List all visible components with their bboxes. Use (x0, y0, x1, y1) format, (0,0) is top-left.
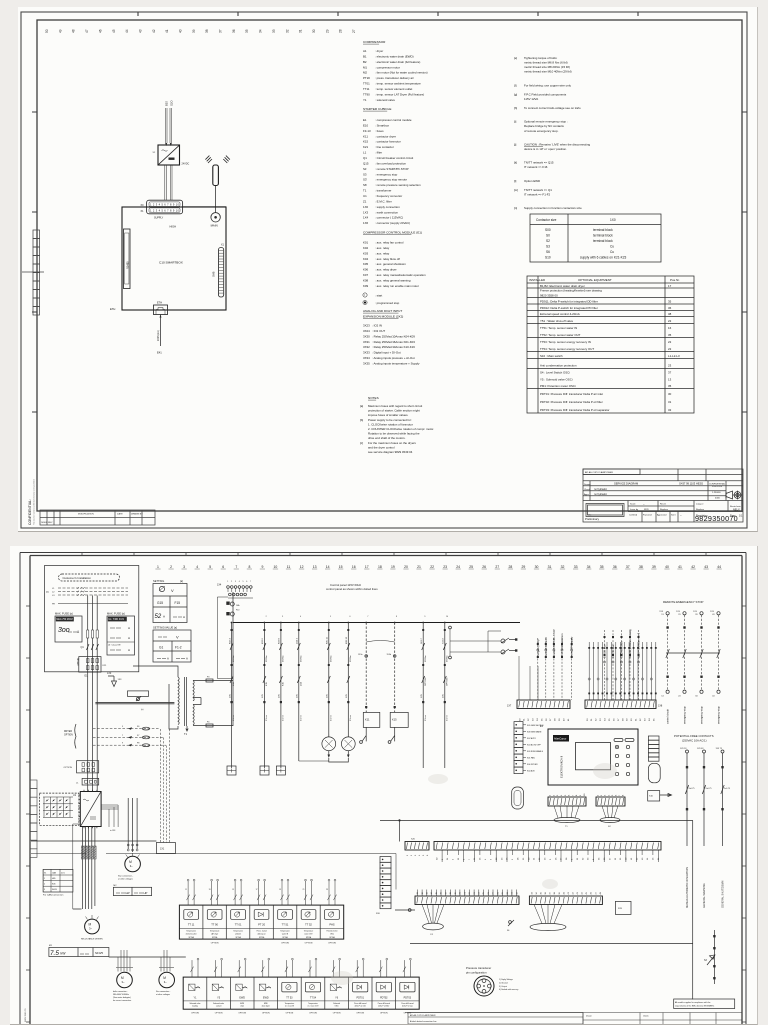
svg-text:ETH: ETH (157, 302, 162, 305)
svg-text:115V 12VA: 115V 12VA (524, 97, 538, 101)
svg-text:E41: E41 (157, 351, 162, 355)
svg-text:terminal block: terminal block (593, 228, 613, 232)
svg-text:35: 35 (600, 565, 604, 569)
svg-text:Res.fl.: Res.fl. (660, 503, 667, 505)
svg-text:For the maximum fuses on the d: For the maximum fuses on the dryers (368, 441, 416, 445)
svg-text:29: 29 (522, 565, 526, 569)
svg-text:5: 5 (550, 858, 552, 860)
svg-text:supply with 6 cables on K21-K2: supply with 6 cables on K21-K23 (580, 256, 626, 260)
customer installation section box (45, 566, 139, 672)
svg-text:control panel as shown within: control panel as shown within dotted lin… (326, 587, 378, 591)
svg-text:9: 9 (122, 743, 124, 745)
svg-text:DRAWN BY: DRAWN BY (131, 513, 143, 516)
notes e-n (514, 56, 518, 210)
terminal strip X20 small (405, 842, 429, 851)
svg-text:MAX. FUSE [a]: MAX. FUSE [a] (107, 612, 125, 616)
svg-text:SUPPLY: SUPPLY (154, 217, 164, 220)
svg-text:S6: S6 (507, 930, 509, 932)
svg-text:--: -- (680, 514, 682, 517)
svg-text:S6 17: S6 17 (421, 638, 423, 645)
svg-text:52: 52 (596, 718, 598, 721)
svg-text:38: 38 (554, 891, 556, 894)
svg-text:en. recov OUT: en. recov OUT (308, 1005, 319, 1008)
svg-text:K21: K21 (363, 145, 369, 149)
svg-text:STARTER CUBICLE: STARTER CUBICLE (363, 107, 391, 111)
title block page2 (405, 1013, 742, 1025)
wire supply B2S (165, 108, 167, 143)
svg-text:28: 28 (566, 857, 568, 860)
cable loop T3 (530, 923, 566, 930)
svg-text:F7: F7 (137, 735, 140, 737)
converter detail box (40, 793, 79, 825)
option labels row1 (211, 943, 337, 945)
sensor TT 51 (273, 905, 297, 939)
svg-text:35: 35 (668, 300, 672, 304)
svg-text:50: 50 (587, 718, 589, 721)
svg-text:40: 40 (564, 718, 566, 721)
svg-text:3X35: 3X35 (363, 362, 370, 366)
D-sub connector X08 (512, 787, 524, 809)
svg-text:EXPANSION MODULE (3X2): EXPANSION MODULE (3X2) (363, 315, 403, 319)
wires below strip 1X8 (442, 850, 658, 862)
svg-text:[j]: [j] (514, 142, 517, 146)
svg-text:: compressor motor: : compressor motor (375, 65, 400, 69)
svg-text:3~: 3~ (122, 980, 125, 984)
svg-text:52: 52 (155, 614, 162, 620)
svg-text:48: 48 (600, 891, 602, 894)
svg-text:For CAN-Connection: For CAN-Connection (43, 894, 64, 897)
svg-text:PDT03: PDT03 (404, 997, 412, 1000)
svg-text:IT network => F16: IT network => F16 (524, 165, 548, 169)
svg-text:4000: 4000 (715, 498, 721, 500)
wire ETH (160, 315, 162, 347)
svg-text:A: A (186, 657, 188, 661)
svg-text:term: term (61, 872, 65, 875)
sensor TT 52 (297, 905, 320, 939)
svg-text:PD912: Delta P-switch for inte: PD912: Delta P-switch for integrated PD … (540, 306, 598, 310)
svg-text:36: 36 (668, 306, 672, 310)
wires above TT 11 (187, 881, 196, 905)
svg-text:3~: 3~ (164, 980, 167, 984)
svg-text:10: 10 (446, 616, 448, 618)
svg-text:Approved: Approved (657, 514, 667, 517)
svg-text:PDT02: Pressure Diff. transduc: PDT02: Pressure Diff. transducer Delta P… (540, 400, 603, 404)
svg-text:(b): (b) (46, 592, 49, 594)
svg-text:Factored: Factored (643, 514, 652, 517)
svg-text:: supply connection: : supply connection (375, 205, 400, 209)
svg-text:SP13A: SP13A (259, 936, 265, 939)
svg-text:SETTING: SETTING (153, 579, 164, 583)
svg-text:protection of starter. Cable s: protection of starter. Cable section mig… (368, 409, 420, 413)
emergency stop S3 (713, 930, 715, 984)
svg-text:MANUAL/AUTOMATIC OPERATION: MANUAL/AUTOMATIC OPERATION (686, 867, 689, 908)
svg-text:SP13A: SP13A (235, 936, 241, 939)
svg-text:Pressure transducer: Pressure transducer (466, 966, 491, 970)
svg-text:10A: 10A (236, 604, 240, 607)
svg-text:B1,B2: Electronic water drain: B1,B2: Electronic water drain dryer (540, 284, 585, 288)
svg-text:K08 GEN WARN: K08 GEN WARN (527, 731, 542, 734)
dryer fuses (142, 727, 149, 730)
svg-text:S3: S3 (704, 960, 708, 962)
svg-text:250Vac: 250Vac (330, 655, 332, 662)
svg-text:at other voltages: at other voltages (156, 993, 170, 996)
svg-text:X1: X1 (44, 873, 46, 875)
heavy 115V feeder (95, 703, 174, 704)
svg-text:31: 31 (458, 857, 460, 860)
svg-text:32: 32 (561, 565, 565, 569)
svg-text:30: 30 (668, 392, 672, 396)
svg-text:1X3: 1X3 (363, 210, 369, 214)
svg-text:(250VAC 10A AC/1): (250VAC 10A AC/1) (682, 738, 707, 742)
D-sub connector right (649, 763, 661, 783)
svg-text:MODIFICATION: MODIFICATION (78, 513, 94, 516)
wires above TT 01 (234, 881, 243, 905)
svg-text:7.5: 7.5 (50, 950, 59, 957)
svg-text:0.5mm: 0.5mm (350, 715, 352, 721)
svg-text:element outlet: element outlet (186, 933, 197, 936)
svg-text:Solenoid: Solenoid (333, 1003, 340, 1005)
svg-text:57: 57 (618, 718, 620, 721)
svg-text:K11: K11 (365, 718, 370, 722)
svg-text:44: 44 (125, 29, 129, 33)
arrowheads into power supply (165, 143, 172, 146)
svg-text:K05 GEN SHUTDN: K05 GEN SHUTDN (527, 725, 544, 727)
svg-text:: compressor control module: : compressor control module (375, 118, 412, 122)
contactor K11 option box (77, 761, 99, 773)
svg-text:X2: X2 (153, 152, 156, 154)
svg-text:T1: T1 (363, 189, 367, 193)
svg-text:M1: M1 (49, 945, 53, 947)
svg-text:Pos.Nr.: Pos.Nr. (670, 278, 680, 282)
svg-text:TT 11: TT 11 (188, 923, 195, 927)
wire frame tap (22, 271, 44, 273)
main control bus 115V (233, 622, 520, 624)
svg-text:K06: K06 (363, 268, 369, 272)
sensor row 2 container (183, 977, 419, 1009)
svg-text:31: 31 (299, 29, 303, 33)
svg-text:[m]: [m] (514, 188, 518, 192)
svg-text:metric thread size M8 20Nm (: metric thread size M8 20Nm (15 lbf) (524, 65, 570, 69)
return wire to T1 (217, 597, 233, 679)
actuator EWD3 (254, 977, 278, 1009)
svg-text:3) Output: 3) Output (499, 985, 507, 988)
svg-text:Q15: Q15 (300, 681, 302, 686)
svg-text:0.5mm: 0.5mm (283, 715, 285, 721)
svg-text:14: 14 (326, 565, 330, 569)
transformer T1 secondary 2 (193, 705, 194, 725)
svg-text:EWD: EWD (239, 997, 245, 1000)
svg-text:[n]: [n] (514, 206, 517, 210)
svg-text:K09 RUN ENABLE: K09 RUN ENABLE (527, 750, 544, 753)
actuator PDT028 (372, 977, 396, 1009)
actuator PDT039 (396, 977, 420, 1009)
svg-text:15: 15 (339, 565, 343, 569)
svg-text:F10: F10 (236, 610, 239, 612)
svg-text:Potentio meter: Potentio meter (327, 930, 338, 933)
svg-text:35: 35 (245, 29, 249, 33)
lamp H1 (322, 737, 336, 751)
motor M4 (159, 972, 175, 988)
emergency stop chain 1 (666, 612, 669, 615)
svg-text:0.5mm: 0.5mm (425, 715, 427, 721)
svg-text:PD911: Delta P-switch for inte: PD911: Delta P-switch for integrated DD … (540, 300, 598, 304)
svg-text:45: 45 (586, 891, 588, 894)
svg-text:TT90: TT90 (363, 92, 370, 96)
svg-text:: frequency convertor: : frequency convertor (375, 194, 402, 198)
wires above PDT017 (356, 960, 364, 977)
svg-text:PDT01: Pressure Diff. transduc: PDT01: Pressure Diff. transducer Delta P… (540, 392, 603, 396)
svg-text:Customer’s Installation: Customer’s Installation (63, 576, 92, 580)
svg-text:: Relay 250Vac/10Amax K04-K09: : Relay 250Vac/10Amax K04-K09 (372, 334, 415, 338)
svg-text:43: 43 (577, 891, 579, 894)
svg-text:Contactor size: Contactor size (536, 218, 557, 222)
svg-text:1: 1 (598, 794, 600, 796)
drop wire tags (229, 636, 448, 721)
svg-text:: electronic water drain (EWD): : electronic water drain (EWD) (375, 54, 414, 58)
svg-text:K05 11: K05 11 (327, 636, 329, 644)
svg-text:1X9: 1X9 (659, 611, 663, 613)
transformer T1 primary winding (178, 677, 179, 725)
supply wires L1 L2 L3 (58, 588, 128, 595)
svg-text:S1 19: S1 19 (443, 638, 445, 645)
svg-text:K08: K08 (363, 279, 369, 283)
motor M3 (117, 972, 133, 988)
svg-text:ATLAS COPCO AIRPOWER: ATLAS COPCO AIRPOWER (585, 471, 613, 474)
svg-text:delta P air inlet: delta P air inlet (355, 1005, 367, 1008)
drop labels (230, 677, 448, 703)
svg-text:1X5: 1X5 (346, 693, 348, 698)
wires into M2 (128, 798, 137, 852)
wire joins lamps (299, 760, 329, 762)
svg-text:4) Sealed with mercury: 4) Sealed with mercury (499, 988, 518, 991)
svg-text:Z1: Z1 (363, 199, 367, 203)
svg-text:Solenoid valve: Solenoid valve (190, 1003, 201, 1005)
svg-text:K08 13: K08 13 (346, 636, 348, 644)
svg-text:Scale: Scale (630, 503, 636, 505)
option labels row2 (191, 1012, 412, 1014)
svg-text:2) Ground: 2) Ground (499, 981, 508, 984)
svg-text:S6': S6' (363, 183, 368, 187)
svg-text:CONFIDENTIAL:: CONFIDENTIAL: (28, 499, 32, 525)
svg-text:A : Class KE: A : Class KE (108, 644, 121, 647)
svg-text:U1: U1 (73, 794, 77, 797)
svg-text:10: 10 (584, 793, 586, 796)
inductor L1 (82, 778, 99, 785)
terminal strip 3X1 A (415, 896, 519, 905)
svg-text:: remote pressure sensing sele: : remote pressure sensing selection (375, 183, 421, 187)
svg-text:3X31: 3X31 (363, 340, 370, 344)
svg-text:TT52: Temp. sensor water OUT: TT52: Temp. sensor water OUT (540, 333, 581, 337)
svg-text:A: A (128, 626, 130, 630)
svg-text:25: 25 (469, 565, 473, 569)
svg-text:: Relay 250Vac/10Amax K10-K16: : Relay 250Vac/10Amax K10-K16 (372, 345, 415, 349)
svg-text:24: 24 (456, 565, 460, 569)
svg-text:OPTION: OPTION (446, 677, 448, 686)
cable loop F1 (423, 923, 444, 930)
svg-text:7: 7 (572, 794, 574, 796)
svg-text:1X9 53: 1X9 53 (680, 748, 687, 750)
svg-text:8: 8 (576, 794, 578, 796)
svg-text:requirements of the EMC direct: requirements of the EMC directive 89/336… (675, 1004, 715, 1007)
frame ticks (26, 553, 746, 1023)
svg-text:26: 26 (555, 857, 557, 860)
svg-text:SP13A: SP13A (212, 936, 218, 939)
svg-text:30: 30 (535, 565, 539, 569)
svg-text:Temperature: Temperature (280, 930, 290, 933)
svg-text:7: 7 (469, 858, 471, 860)
svg-text:4: 4 (419, 854, 421, 856)
actuator Y51 (207, 977, 231, 1009)
phase wires to Q1 (88, 596, 98, 792)
svg-text:28: 28 (339, 29, 343, 33)
actuator Y10 (183, 984, 207, 1008)
svg-text:--: -- (643, 503, 645, 505)
atlas copco logo (553, 735, 569, 742)
svg-text:1X5: 1X5 (443, 693, 445, 698)
svg-text:see service diagram 9829 4549: see service diagram 9829 4549 04 (368, 450, 413, 454)
node on bus (398, 819, 400, 821)
sensor TT 01 (226, 905, 250, 939)
wire strip2 left (395, 909, 415, 911)
antenna (213, 165, 219, 186)
svg-text:2: 2 (411, 854, 413, 856)
svg-text:Temperature: Temperature (285, 1002, 295, 1005)
svg-text:34: 34 (536, 891, 538, 894)
svg-text:Press diff transd: Press diff transd (378, 1002, 390, 1005)
svg-text:SF4/5: SF4/5 (95, 951, 103, 955)
mid squares on drops (231, 629, 446, 666)
svg-text:33: 33 (695, 614, 698, 616)
svg-text:3X24: 3X24 (363, 329, 370, 333)
actuator EWD2 (230, 977, 254, 1009)
svg-text:28: 28 (509, 565, 513, 569)
svg-text:250Vac: 250Vac (283, 655, 285, 662)
svg-text:3X23: 3X23 (363, 324, 370, 328)
svg-text:M: M (163, 976, 166, 980)
svg-text:2. COUNTER CLOCKwise rotation: 2. COUNTER CLOCKwise rotation of compr. … (368, 427, 434, 431)
svg-text:37: 37 (668, 371, 672, 375)
svg-text:1X5: 1X5 (421, 693, 423, 698)
svg-text:1X5: 1X5 (297, 693, 299, 698)
svg-text:SP13A: SP13A (282, 936, 288, 939)
svg-text:7: 7 (122, 735, 124, 737)
svg-text:CAUTION : Remains ‘LIVE’ when: CAUTION : Remains ‘LIVE’ when the discon… (524, 142, 590, 146)
svg-text:F1-2: F1-2 (175, 646, 182, 650)
svg-text:[i]: [i] (514, 120, 516, 124)
svg-text:31: 31 (524, 718, 526, 721)
revision table (40, 510, 155, 525)
svg-text:0.5mm: 0.5mm (330, 715, 332, 721)
svg-text:Q1: Q1 (363, 156, 367, 160)
terminal strip 1X7 group B (585, 700, 656, 709)
svg-text:OPTION: OPTION (425, 677, 427, 686)
wires T1 primary feed (133, 666, 178, 729)
svg-text:3X9: 3X9 (618, 908, 623, 910)
svg-text:no hydraulic: no hydraulic (594, 488, 608, 491)
PE wire (58, 603, 128, 605)
svg-text:1: 1 (227, 581, 228, 583)
svg-text:44: 44 (712, 696, 715, 698)
C10 SMARTBOX E10 (122, 207, 226, 310)
svg-text:250Vac: 250Vac (266, 655, 268, 662)
svg-text:1. CLOCKwise rotation of fanmo: 1. CLOCKwise rotation of fanmotor (368, 422, 413, 426)
svg-text:45: 45 (653, 857, 655, 860)
svg-text:kW: kW (126, 891, 130, 895)
svg-text:B2S: B2S (165, 101, 169, 106)
svg-text:[a]: [a] (360, 404, 363, 408)
svg-text:3: 3 (183, 565, 185, 569)
svg-text:18: 18 (378, 565, 382, 569)
svg-text:S6: S6 (546, 250, 550, 254)
svg-text:11: 11 (615, 857, 617, 860)
svg-text:TT51: Temp. sensor water IN: TT51: Temp. sensor water IN (540, 326, 577, 330)
terminal strip 1X8 long (434, 842, 661, 851)
svg-text:TT 53: TT 53 (286, 997, 293, 1000)
svg-text:9: 9 (424, 616, 425, 618)
svg-text:EWD: EWD (263, 997, 269, 1000)
svg-text:OPTION: OPTION (191, 1012, 199, 1014)
svg-text:K06 DRYER: K06 DRYER (527, 764, 538, 766)
svg-text:OPTION: OPTION (286, 1012, 294, 1014)
svg-text:I: I (364, 293, 365, 297)
svg-text:5: 5 (423, 854, 425, 856)
svg-text:SETTING/VALUE [a]: SETTING/VALUE [a] (153, 626, 177, 630)
feeder fuses F10 (230, 602, 234, 606)
svg-text:A1: A1 (363, 49, 367, 53)
svg-text:2: 2 (44, 884, 45, 886)
svg-text:POTENTIAL FREE CONTACTS: POTENTIAL FREE CONTACTS (674, 734, 714, 738)
svg-text:OPTION: OPTION (64, 767, 73, 769)
svg-text:T1: T1 (184, 732, 188, 736)
svg-text:ELEKTRONIKON Ⅱ: ELEKTRONIKON Ⅱ (560, 755, 564, 778)
svg-text:16: 16 (352, 565, 356, 569)
svg-text:3X30: 3X30 (363, 334, 370, 338)
svg-text:impose fuses of smaller values: impose fuses of smaller values. (368, 413, 409, 417)
cable shield markers (81, 846, 96, 859)
svg-text:SERVICE DIAGRAM: SERVICE DIAGRAM (614, 482, 638, 486)
svg-text:22: 22 (668, 340, 672, 344)
wire antenna to MAIN (215, 186, 217, 213)
dryer option wires (93, 729, 166, 746)
actuator Y66 (325, 977, 349, 1009)
svg-text:: Analog inputs pressure + AI-: : Analog inputs pressure + AI-Out (372, 356, 415, 360)
svg-text:5: 5 (243, 581, 244, 583)
svg-text:AtlasCopco: AtlasCopco (554, 738, 567, 741)
svg-text:34: 34 (447, 857, 449, 860)
compliance note box (674, 999, 735, 1009)
svg-text:1X3a: 1X3a (358, 654, 363, 656)
svg-text:2: 2 (553, 794, 555, 796)
svg-text:: dryer: : dryer (375, 49, 383, 53)
svg-text:Preliminary: Preliminary (585, 517, 600, 521)
wires above EWD3 (261, 960, 269, 977)
svg-text:F15: F15 (175, 601, 181, 605)
svg-text:This document contains confide: This document contains confidential info… (33, 479, 36, 525)
svg-text:F1: F1 (431, 934, 434, 936)
svg-text:40: 40 (563, 891, 565, 894)
svg-text:6: 6 (427, 854, 429, 856)
motor M1 (85, 919, 100, 934)
svg-text:COMPRESSOR: COMPRESSOR (363, 40, 386, 44)
svg-text:Replace: Replace (696, 509, 705, 511)
svg-text:4: 4 (485, 858, 487, 860)
svg-text:Appr.: Appr. (584, 493, 589, 496)
svg-text:36: 36 (546, 718, 548, 721)
svg-text:OPTION: OPTION (262, 1012, 270, 1014)
controller buttons (614, 739, 634, 776)
svg-text:L1-L2-L3: L1-L2-L3 (668, 354, 680, 358)
svg-text:OPTION: OPTION (356, 1012, 364, 1014)
